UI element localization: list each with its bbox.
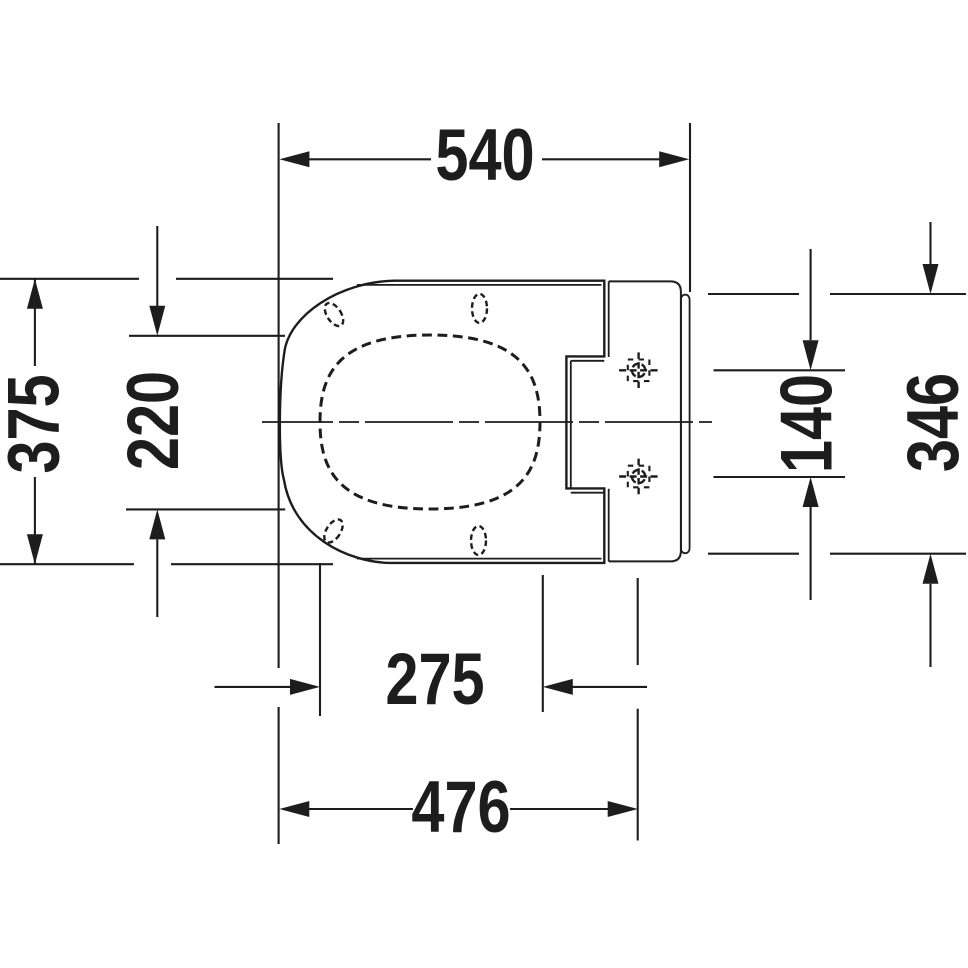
extension lines 220 xyxy=(126,336,285,510)
svg-text:346: 346 xyxy=(892,373,968,472)
svg-text:476: 476 xyxy=(411,766,510,848)
extension line 540 right xyxy=(689,123,691,292)
bumper top-left xyxy=(321,300,347,329)
hinge plate left edge upper xyxy=(608,281,610,357)
extension lines 346 xyxy=(708,294,966,554)
hinge plate left edge lower xyxy=(608,489,610,562)
bumper bottom-center xyxy=(471,526,486,555)
dimension 476 xyxy=(306,808,611,810)
svg-text:275: 275 xyxy=(385,638,484,720)
seat notch inner lines xyxy=(571,361,605,493)
seat outline xyxy=(280,281,604,563)
extension line left long (540/476) xyxy=(278,123,280,844)
screw symbol lower xyxy=(619,459,658,495)
dimension 540 xyxy=(306,158,662,160)
extension lines 140 xyxy=(714,370,846,477)
screw symbol upper xyxy=(619,352,658,388)
horizontal center line xyxy=(262,421,712,423)
svg-text:540: 540 xyxy=(435,114,534,196)
extension line 476 right xyxy=(637,578,639,841)
seat inner top edge xyxy=(357,284,602,286)
seat inner bottom edge xyxy=(357,558,602,560)
dimension 220 xyxy=(156,226,158,617)
bumper top-center xyxy=(472,294,487,323)
svg-text:140: 140 xyxy=(765,374,847,473)
dimension 346 xyxy=(929,222,931,667)
hinge plate xyxy=(609,281,681,561)
extension line 275 left xyxy=(319,563,321,716)
extension line 275 right xyxy=(542,575,544,712)
dimension 375 xyxy=(34,279,36,564)
extension lines 375 xyxy=(0,279,333,564)
svg-text:220: 220 xyxy=(112,371,194,470)
dimension 140 xyxy=(810,249,812,600)
seat opening dashed oval xyxy=(320,335,540,509)
svg-text:375: 375 xyxy=(0,374,75,473)
dimension 275 xyxy=(215,686,648,688)
bumper bottom-left xyxy=(321,516,347,545)
end cap xyxy=(681,295,690,554)
